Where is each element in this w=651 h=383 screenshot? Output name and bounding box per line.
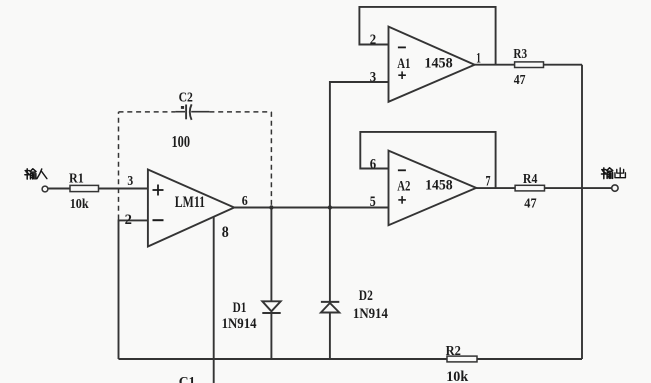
svg-text:D1: D1 (233, 300, 247, 316)
svg-text:2: 2 (125, 212, 132, 228)
svg-text:C1: C1 (179, 375, 196, 383)
svg-text:R2: R2 (446, 344, 461, 359)
svg-text:47: 47 (524, 196, 536, 211)
svg-text:3: 3 (370, 69, 376, 85)
svg-text:5: 5 (370, 194, 376, 210)
svg-text:C2: C2 (179, 91, 193, 106)
svg-text:R4: R4 (523, 172, 538, 187)
svg-text:2: 2 (370, 32, 376, 48)
svg-text:7: 7 (486, 174, 491, 190)
svg-text:6: 6 (242, 194, 248, 209)
svg-text:A2: A2 (397, 178, 410, 194)
svg-text:1458: 1458 (425, 178, 453, 194)
svg-text:3: 3 (127, 173, 133, 188)
svg-text:R3: R3 (513, 47, 527, 62)
svg-text:10k: 10k (70, 197, 89, 212)
svg-text:47: 47 (514, 73, 526, 88)
svg-text:1N914: 1N914 (353, 306, 388, 322)
svg-text:100: 100 (172, 132, 191, 151)
svg-text:D2: D2 (359, 288, 373, 304)
svg-text:6: 6 (370, 157, 377, 173)
svg-text:8: 8 (222, 224, 229, 241)
svg-text:10k: 10k (446, 369, 469, 383)
svg-text:1: 1 (476, 51, 481, 67)
svg-text:1458: 1458 (424, 55, 452, 71)
svg-text:1N914: 1N914 (222, 316, 257, 332)
svg-text:A1: A1 (397, 56, 410, 72)
svg-text:LM11: LM11 (175, 194, 205, 211)
svg-text:R1: R1 (69, 172, 84, 187)
